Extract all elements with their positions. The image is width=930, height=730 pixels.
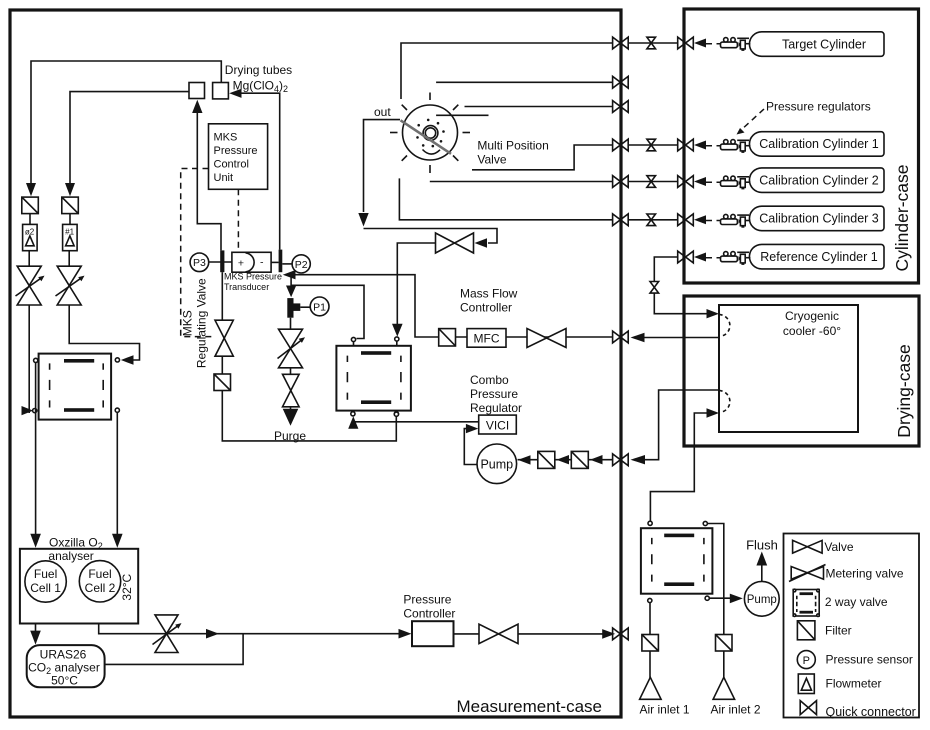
svg-text:Air inlet 1: Air inlet 1 — [639, 703, 689, 717]
multi position valve — [390, 93, 470, 174]
Calibration Cylinder 2 — [749, 168, 884, 193]
wire branch to P1 tap — [290, 275, 292, 286]
flowmeter FM1 — [63, 224, 78, 250]
Reference Cylinder 1 — [749, 244, 884, 269]
arrow into drying tube A — [229, 89, 241, 98]
pressure regulator row 5 — [694, 252, 750, 265]
wire — [29, 214, 31, 225]
wire valve to filter F3 — [221, 356, 223, 374]
Target Cylinder — [749, 32, 884, 57]
arrow into cooler inlet — [707, 309, 720, 318]
filter F2 — [22, 197, 39, 214]
metering valve M1 — [57, 266, 81, 305]
svg-text:Flowmeter: Flowmeter — [826, 676, 882, 690]
quick connector cylinder row 3 — [678, 176, 694, 188]
legend pressure sensor — [797, 651, 815, 669]
wire out to valve — [364, 229, 498, 244]
wire air inlet 2 column — [707, 524, 723, 679]
svg-text:Pressure: Pressure — [214, 145, 258, 157]
svg-text:2 way valve: 2 way valve — [825, 595, 888, 609]
quick connector cylinder row 1 — [678, 37, 694, 49]
wire MPV out line — [364, 120, 401, 212]
pump (sample) — [477, 444, 517, 484]
flowmeter air inlet 2 — [713, 677, 735, 699]
svg-text:Valve: Valve — [477, 153, 506, 167]
quick connector cylinder row 5 — [678, 251, 694, 263]
svg-text:out: out — [374, 105, 391, 119]
legend quick connector — [800, 701, 816, 715]
legend flowmeter — [798, 674, 814, 694]
cryogenic cooler — [719, 305, 858, 432]
svg-text:Pressure: Pressure — [470, 387, 518, 401]
svg-text:Target Cylinder: Target Cylinder — [782, 37, 866, 51]
wire transducer right branch to drying tube A — [240, 93, 280, 249]
pressure controller — [412, 621, 454, 646]
arrow flush — [756, 552, 767, 566]
arrow up into right selector bottom left port — [348, 416, 358, 429]
svg-text:-: - — [260, 256, 264, 268]
arrow on analyser line — [206, 629, 219, 639]
drying-case enclosure — [684, 296, 919, 446]
dashed control line to regulating valve — [181, 169, 212, 337]
wire cooler lower port to pump quick connector — [645, 390, 719, 460]
wire to purge valve — [290, 368, 292, 375]
filter F5 — [538, 451, 555, 468]
wire metering valve M1 to left selector top port — [69, 305, 139, 360]
filter F8 — [716, 635, 733, 652]
wire MPV stub port — [436, 114, 488, 116]
arrow into pressure controller — [399, 629, 412, 639]
svg-text:URAS26: URAS26 — [40, 648, 87, 662]
wire air inlet 1 column — [649, 603, 651, 679]
wire pump to VICI — [464, 429, 477, 465]
quick connector row 6 measurement edge — [613, 214, 629, 226]
MKS pressure transducer body — [232, 252, 271, 272]
svg-text:Regulator: Regulator — [470, 401, 522, 415]
arrow into cooler lower inlet — [707, 408, 720, 417]
svg-text:MKS: MKS — [181, 310, 195, 336]
svg-text:Pressure regulators: Pressure regulators — [766, 100, 871, 114]
wire row Calibration Cylinder 1 to MPV — [628, 144, 678, 146]
quick connector MFC row — [613, 331, 629, 343]
wire metering valve M2 to selector — [28, 305, 30, 413]
right tick link — [271, 261, 279, 263]
left tick — [220, 250, 224, 272]
quick connector row 5 measurement edge — [613, 176, 629, 188]
wire — [68, 251, 70, 267]
pressure sensor P2 — [282, 263, 292, 265]
flowmeter FM2 — [23, 224, 37, 250]
arrow into quick connector MFC row — [631, 333, 645, 342]
svg-text:Pump: Pump — [480, 457, 513, 471]
arrow into P1 tap — [286, 286, 296, 298]
wire purge manifold — [222, 391, 396, 441]
wire — [69, 214, 71, 225]
dashed control line to transducer — [237, 189, 239, 251]
quick connector cylinder row 2 — [678, 139, 694, 151]
wire purge circle — [394, 412, 398, 416]
flowmeter air inlet 1 — [640, 677, 662, 699]
right tick — [279, 250, 283, 273]
wire cooler outlet to measurement case — [644, 337, 719, 339]
arrow into filter F1 — [65, 183, 75, 196]
svg-text:Measurement-case: Measurement-case — [456, 697, 602, 716]
svg-text:Calibration Cylinder 3: Calibration Cylinder 3 — [759, 212, 879, 226]
wire Reference Cylinder 1 to cryogenic cooler — [654, 257, 707, 314]
wire air selector to cooler lower inlet — [650, 413, 707, 521]
purge valve — [283, 374, 300, 407]
svg-text:Control: Control — [214, 159, 249, 171]
MKS pressure control unit — [209, 124, 268, 190]
arrow into quick connector pump row — [631, 455, 646, 464]
URAS return line — [105, 634, 244, 665]
svg-text:MKS: MKS — [214, 132, 238, 144]
arrow between filters — [557, 455, 570, 464]
valve V2 — [527, 329, 566, 348]
svg-text:P2: P2 — [295, 259, 308, 271]
MKS regulating valve column — [221, 272, 223, 320]
svg-text:Calibration Cylinder 1: Calibration Cylinder 1 — [759, 137, 879, 151]
wire P1 tap to purge metering valve — [290, 318, 292, 330]
thick junction line P3 — [209, 261, 232, 263]
wire transducer to MFC line — [295, 275, 440, 337]
legend metering valve — [791, 567, 823, 580]
quick connector row 2 measurement edge — [613, 76, 629, 88]
svg-text:MFC: MFC — [474, 331, 500, 345]
wire left selector to Oxzilla left — [35, 363, 37, 534]
pressure regulator row 2 — [694, 140, 750, 153]
svg-text:Fuel: Fuel — [34, 567, 57, 581]
arrow into Oxzilla left — [30, 534, 41, 548]
wire drying tube B loop — [70, 92, 189, 183]
quick connector pump row — [613, 454, 629, 466]
valve V1 — [436, 233, 474, 253]
arrow after right filter — [590, 455, 603, 464]
metering valve M2 — [17, 266, 41, 305]
svg-text:Valve: Valve — [824, 540, 853, 554]
svg-text:cooler -60°: cooler -60° — [783, 324, 841, 338]
Oxzilla O2 analyser — [20, 536, 138, 624]
legend 2 way valve — [793, 589, 819, 616]
filter F4 — [439, 329, 456, 346]
arrow into left selector right top port — [121, 355, 134, 365]
drying tube A — [213, 83, 229, 99]
svg-text:Drying tubes: Drying tubes — [225, 63, 292, 77]
svg-text:MKS Pressure: MKS Pressure — [224, 272, 282, 282]
svg-text:Controller: Controller — [460, 301, 512, 315]
arrow into left selector box — [22, 406, 34, 415]
wire Oxzilla to URAS — [35, 624, 37, 632]
URAS26 CO2 analyser — [27, 645, 105, 687]
svg-text:Pressure sensor: Pressure sensor — [826, 652, 913, 666]
legend filter — [797, 621, 815, 640]
legend box — [784, 534, 920, 718]
shutoff valve row 6 — [647, 214, 656, 226]
left selector 2-way valve box — [33, 354, 120, 420]
pressure sensor P3 — [190, 253, 209, 272]
svg-text:Mass Flow: Mass Flow — [460, 287, 518, 301]
filter F7 — [642, 635, 659, 652]
wire left selector to Oxzilla right — [116, 412, 118, 534]
VICI combo pressure regulator — [479, 415, 517, 434]
wire pump suction line — [518, 459, 613, 461]
metering valve M3 — [155, 615, 178, 653]
svg-text:P: P — [803, 655, 810, 667]
shutoff valve row 1 — [647, 37, 656, 49]
svg-text:+: + — [238, 257, 244, 269]
pressure regulator row 4 — [694, 214, 750, 227]
svg-text:32°C: 32°C — [120, 573, 134, 600]
svg-text:Reference Cylinder 1: Reference Cylinder 1 — [760, 250, 877, 264]
svg-text:Combo: Combo — [470, 373, 509, 387]
purge metering valve — [279, 329, 303, 368]
wire valve V1 to selector box — [397, 243, 435, 325]
air selector 2-way valve box — [641, 521, 713, 602]
wire VICI to right selector bottom left port — [353, 421, 478, 423]
svg-text:Unit: Unit — [214, 172, 234, 184]
measurement-case enclosure — [10, 10, 621, 717]
pressure regulator row 1 — [694, 38, 750, 51]
wire spare port row A — [436, 81, 612, 83]
wire air selector to flush pump — [709, 597, 730, 599]
arrow into filter F2 — [26, 183, 36, 196]
svg-text:Cylinder-case: Cylinder-case — [892, 165, 912, 272]
MFC unit — [467, 329, 506, 348]
arrow into valve V1 — [475, 238, 488, 247]
svg-text:Calibration Cylinder 2: Calibration Cylinder 2 — [759, 173, 879, 187]
svg-text:Drying-case: Drying-case — [894, 344, 914, 437]
svg-text:analyser: analyser — [48, 549, 93, 563]
wire valve V3 to outlet quick connector — [518, 633, 605, 635]
wire spare port row B — [465, 106, 613, 108]
valve V3 — [479, 624, 518, 643]
svg-text:Cell 1: Cell 1 — [30, 581, 61, 595]
arrow into VICI — [466, 424, 478, 433]
arrow into selector box top — [392, 324, 403, 337]
quick connector row 3 measurement edge — [613, 101, 629, 113]
pressure regulator row 3 — [694, 176, 750, 189]
svg-text:Quick connector: Quick connector — [826, 705, 916, 719]
shutoff valve row 4 — [647, 139, 656, 151]
quick connector row 4 measurement edge — [613, 139, 629, 151]
cylinder-case enclosure — [684, 9, 919, 283]
wire branch to selector box left port — [291, 285, 364, 338]
wire MFC chain — [440, 336, 613, 338]
pressure regulators pointer — [740, 109, 764, 131]
wire — [28, 251, 30, 267]
svg-text:Cryogenic: Cryogenic — [785, 309, 839, 323]
wire row Target cylinder to MPV — [628, 42, 678, 44]
shutoff valve row 5 — [647, 176, 656, 188]
svg-text:Flush: Flush — [746, 538, 778, 553]
analyser line Oxzilla out — [99, 624, 407, 634]
svg-text:Cell 2: Cell 2 — [85, 581, 116, 595]
Calibration Cylinder 3 — [749, 206, 884, 231]
filter F6 — [571, 451, 588, 468]
quick connector cylinder row 4 — [678, 214, 694, 226]
svg-text:P1: P1 — [313, 301, 326, 313]
wire drying tube A loop — [31, 61, 221, 183]
P1 tap — [287, 298, 293, 318]
wire flush outlet — [761, 565, 763, 581]
arrow at out junction — [358, 213, 368, 227]
MKS regulating valve — [215, 320, 233, 356]
svg-text:P3: P3 — [193, 257, 206, 269]
purge outlet arrow — [290, 407, 292, 410]
pump (flush) — [744, 581, 779, 616]
svg-text:Fuel: Fuel — [88, 567, 111, 581]
Calibration Cylinder 1 — [749, 132, 884, 157]
arrow into Oxzilla right — [112, 534, 123, 548]
svg-text:Regulating Valve: Regulating Valve — [195, 278, 209, 368]
wire row Calibration Cylinder 2 to MPV — [628, 181, 678, 183]
arrow into outlet quick connector — [602, 629, 615, 639]
pressure sensor P1 — [300, 306, 310, 308]
svg-text:Pressure: Pressure — [403, 593, 451, 607]
svg-text:Metering valve: Metering valve — [826, 566, 904, 580]
arrow into transducer junction — [283, 270, 296, 279]
shutoff valve reference line — [650, 282, 659, 294]
arrow into drying tube B — [192, 100, 202, 113]
legend valve — [793, 540, 823, 553]
right selector 2-way valve box — [336, 337, 411, 416]
svg-text:Controller: Controller — [403, 607, 455, 621]
filter F1 — [62, 197, 79, 214]
svg-text:Multi Position: Multi Position — [477, 139, 548, 153]
svg-text:Filter: Filter — [825, 624, 852, 638]
svg-text:50°C: 50°C — [51, 674, 78, 688]
drying tube B — [189, 83, 205, 99]
svg-text:Air inlet 2: Air inlet 2 — [710, 703, 760, 717]
arrow into pump — [518, 455, 531, 464]
arrow into URAS — [30, 631, 41, 645]
arrow into flush pump — [730, 594, 743, 604]
svg-text:Pump: Pump — [747, 594, 777, 606]
svg-text:Transducer: Transducer — [224, 282, 269, 292]
wire PC to valve V3 — [454, 633, 480, 635]
quick connector row 1 measurement edge — [613, 37, 629, 49]
svg-text:VICI: VICI — [486, 419, 509, 433]
wire row Calibration Cylinder 3 to MPV — [628, 219, 678, 221]
svg-text:Mg(ClO4)2: Mg(ClO4)2 — [233, 79, 288, 95]
wire transducer left branch to drying tube B — [197, 112, 221, 250]
filter F3 — [214, 374, 231, 391]
quick connector outlet row — [613, 628, 629, 640]
